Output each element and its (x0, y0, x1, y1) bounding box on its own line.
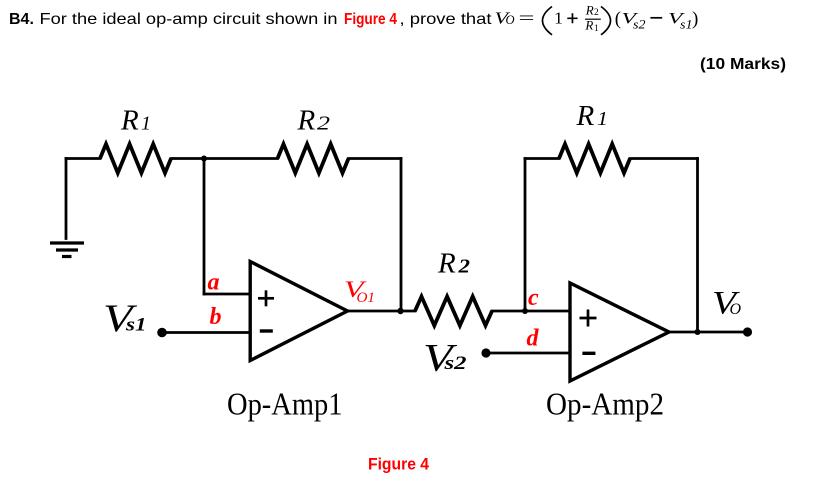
svg-text:Figure 4: Figure 4 (344, 11, 397, 28)
svg-text:R: R (120, 105, 139, 137)
svg-text:c: c (528, 285, 539, 311)
svg-text:1: 1 (594, 24, 599, 34)
svg-text:1: 1 (554, 9, 563, 28)
svg-text:Op-Amp2: Op-Amp2 (546, 386, 664, 422)
svg-text:, prove that: , prove that (400, 11, 493, 28)
svg-text:2: 2 (594, 8, 599, 18)
svg-text:1: 1 (141, 113, 151, 135)
svg-text:R: R (297, 105, 316, 137)
svg-text:Op-Amp1: Op-Amp1 (227, 386, 343, 422)
svg-text:For the ideal op-amp circuit s: For the ideal op-amp circuit shown in (40, 11, 338, 28)
svg-text:1: 1 (597, 108, 608, 130)
svg-text:R: R (576, 100, 595, 132)
svg-text:d: d (527, 326, 540, 352)
svg-text:s2: s2 (443, 353, 467, 374)
svg-text:): ) (692, 9, 698, 30)
svg-text:R: R (437, 248, 456, 280)
svg-text:Figure 4: Figure 4 (368, 455, 430, 474)
svg-text:s2: s2 (633, 18, 646, 32)
svg-text:O: O (730, 301, 742, 318)
svg-text:=: = (519, 9, 535, 28)
svg-text:R: R (585, 3, 594, 18)
svg-text:b: b (210, 304, 222, 330)
svg-text:O: O (506, 13, 515, 27)
svg-text:2: 2 (317, 113, 330, 135)
svg-text:(10 Marks): (10 Marks) (700, 56, 786, 73)
svg-text:B4.: B4. (9, 11, 34, 28)
svg-text:a: a (208, 270, 220, 296)
svg-text:O1: O1 (357, 290, 376, 306)
svg-text:R: R (584, 18, 593, 33)
svg-text:2: 2 (457, 256, 470, 278)
svg-text:s1: s1 (680, 18, 693, 32)
svg-text:(: ( (615, 9, 621, 30)
svg-text:s1: s1 (125, 315, 147, 336)
